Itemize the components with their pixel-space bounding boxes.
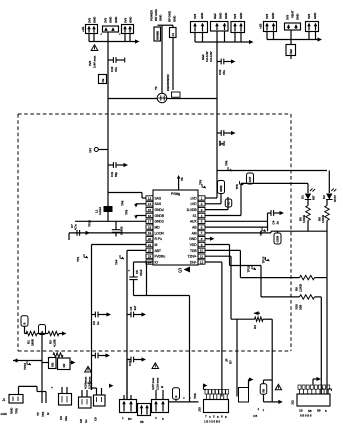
svg-text:TP1: TP1 (76, 256, 80, 262)
label charge ratings (151, 377, 164, 390)
wire group B pins to bus (195, 31, 241, 42)
wire REF to LED row 1 (217, 170, 327, 172)
label C2 (92, 321, 100, 325)
svg-text:3.3-4.6V: 3.3-4.6V (209, 51, 213, 62)
connector J4 (170, 28, 177, 38)
svg-text:GNDB: GNDB (120, 226, 124, 235)
svg-text:23: 23 (148, 254, 152, 258)
wire pin5 AUX (205, 213, 268, 231)
svg-text:INT GND: INT GND (154, 8, 158, 21)
capacitor C5 block labels (193, 12, 204, 19)
svg-text:1 B 0 5 8 B 8: 1 B 0 5 8 B 8 (204, 420, 220, 424)
label J12 row2 (300, 414, 312, 418)
capacitor C8 block (264, 22, 277, 32)
svg-text:FB2: FB2 (289, 49, 293, 55)
svg-text:DBX004W13: DBX004W13 (166, 74, 170, 91)
svg-text:3V3: 3V3 (265, 14, 269, 19)
svg-text:1u: 1u (96, 321, 100, 325)
svg-text:D1: D1 (301, 195, 305, 199)
label CA (51, 386, 68, 421)
capacitor C3 block (122, 25, 134, 34)
svg-text:15: 15 (148, 208, 152, 212)
capacitor C2 gnd (92, 312, 112, 318)
wire left drop B (126, 250, 128, 399)
wire pin3 badge (205, 197, 228, 210)
svg-text:E: E (40, 331, 44, 333)
badge GSM (274, 231, 281, 244)
label J10 (198, 407, 202, 412)
wire pin19 LOOR (69, 231, 146, 240)
warning triangle 3V3 (91, 45, 98, 51)
wire J4 stub down (172, 25, 174, 90)
wire pin10 TDB (205, 250, 300, 277)
wire pin11 TZN (205, 256, 255, 396)
connector J3 labels (81, 16, 97, 32)
svg-text:M: M (155, 243, 158, 247)
svg-text:B: B (23, 323, 27, 325)
svg-text:5B: 5B (140, 420, 144, 424)
svg-text:47uF: 47uF (139, 269, 143, 276)
svg-text:10: 10 (200, 249, 204, 253)
svg-text:TP7: TP7 (89, 147, 93, 153)
svg-text:1.2uH: 1.2uH (98, 207, 102, 215)
resistor R5 (299, 200, 311, 224)
wire E1 drop (41, 335, 43, 404)
ferrite FB2 labels (286, 10, 300, 20)
warning triangle R8 (275, 384, 281, 389)
svg-text:19: 19 (148, 231, 152, 235)
svg-text:SWB: SWB (219, 185, 223, 191)
svg-text:GND: GND (10, 407, 14, 414)
badge E1 (39, 325, 46, 335)
wire REF bus vertical (216, 31, 218, 198)
svg-text:1.5KB: 1.5KB (302, 214, 306, 223)
testpoint TP7 (89, 147, 109, 153)
wire pin8 GND arrow (205, 237, 215, 241)
label C11 56p (110, 172, 118, 177)
svg-text:GSM: GSM (276, 235, 280, 242)
svg-text:1n: 1n (276, 221, 280, 225)
svg-text:TP8: TP8 (225, 160, 229, 166)
wire group B gnd bus (195, 40, 254, 44)
svg-text:GNDd: GNDd (155, 208, 164, 212)
wire crystal row (108, 98, 217, 100)
svg-text:MD: MD (155, 225, 161, 229)
svg-text:GND: GND (129, 16, 133, 23)
capacitor C2 block labels (104, 16, 119, 23)
testpoint TP9 hook (134, 215, 146, 219)
warning triangle batt (85, 366, 92, 372)
svg-text:1.2KB: 1.2KB (299, 283, 303, 292)
wire pin6 AB (205, 226, 268, 228)
svg-text:LVD: LVD (190, 196, 197, 200)
capacitor C3 labels (124, 16, 133, 23)
svg-text:TPB: TPB (193, 392, 197, 399)
svg-text:+: + (128, 269, 130, 273)
capacitor C7 (70, 224, 80, 236)
wire pin9 VDD (205, 245, 300, 297)
svg-text:GNDd: GNDd (155, 220, 164, 224)
label batt ratings (84, 376, 92, 389)
svg-text:0 B: 0 B (219, 142, 223, 146)
svg-text:12: 12 (200, 260, 204, 264)
warning triangle charge (152, 363, 159, 369)
capacitor C11 (108, 162, 128, 168)
connector block D3b (152, 390, 169, 413)
LED D2 (322, 171, 337, 203)
wire pin1 LVD (205, 197, 217, 199)
wire gnd rail (75, 220, 146, 222)
svg-text:B: B (174, 396, 178, 398)
connector J10 aux box (239, 388, 249, 403)
wire group A pins to bus (89, 34, 130, 42)
svg-text:2.2A max: 2.2A max (156, 377, 160, 390)
wire LED columns to bottom (308, 221, 327, 278)
capacitor C1 block (86, 25, 98, 34)
svg-text:VBAT: VBAT (291, 10, 295, 18)
svg-text:J4: J4 (171, 33, 175, 37)
LED D1 (301, 183, 316, 200)
svg-text:C9: C9 (94, 417, 98, 421)
resistor R7 box (172, 92, 181, 97)
svg-text:GND: GND (224, 12, 228, 19)
label TP10 (88, 220, 92, 227)
svg-text:3V3: 3V3 (104, 18, 108, 23)
svg-text:TP6: TP6 (235, 184, 239, 190)
capacitor C3b gnd (127, 357, 146, 363)
capacitor C9 labels (307, 12, 317, 19)
wire 3V3 bus vertical (107, 32, 109, 221)
wire R8 down (264, 394, 283, 404)
wire U1 top stub Vb (177, 175, 184, 190)
svg-text:GND: GND (159, 14, 163, 21)
capacitor C12 gnd (127, 359, 131, 361)
svg-text:3V3: 3V3 (233, 14, 237, 19)
svg-text:POWER: POWER (150, 9, 154, 21)
svg-text:4.10B: 4.10B (53, 339, 57, 347)
svg-text:3V3: 3V3 (193, 14, 197, 19)
svg-text:GND: GND (296, 13, 300, 20)
wire drop B continues (126, 360, 128, 400)
dashed module boundary box (18, 114, 291, 351)
svg-text:S1: S1 (193, 214, 197, 218)
capacitor C13 (108, 57, 125, 63)
svg-text:GND: GND (109, 16, 113, 23)
svg-text:22: 22 (148, 249, 152, 253)
label TP8 right (219, 142, 232, 171)
svg-text:S: S (178, 269, 182, 275)
svg-text:TP13: TP13 (262, 256, 266, 263)
svg-text:16: 16 (148, 214, 152, 218)
capacitor C6 block labels (233, 12, 243, 19)
svg-text:GND: GND (239, 12, 243, 19)
svg-text:C17: C17 (128, 360, 132, 366)
wire J12 feeds (322, 389, 332, 391)
label J1 pins (1, 407, 19, 416)
wire R4 route (263, 319, 272, 402)
svg-text:J1: J1 (2, 398, 6, 402)
svg-text:47n: 47n (222, 70, 226, 75)
testpoint TP4 (115, 255, 125, 265)
label J12 (291, 400, 295, 405)
labels bottom center (122, 416, 164, 424)
svg-text:R.Pu: R.Pu (155, 237, 162, 241)
connector J12 (297, 377, 330, 406)
svg-text:C6: C6 (59, 416, 63, 420)
resistor R6 (318, 200, 330, 224)
svg-text:TPB: TPB (15, 407, 19, 414)
svg-text:LOOR: LOOR (155, 231, 165, 235)
svg-text:1LVDB: 1LVDB (187, 208, 198, 212)
svg-text:3V3: 3V3 (307, 14, 311, 19)
label J10 pins (205, 415, 227, 420)
svg-text:1u: 1u (84, 419, 88, 423)
svg-text:TDB: TDB (190, 249, 197, 253)
svg-text:21: 21 (148, 243, 152, 247)
wire pin24 IO (134, 261, 154, 263)
connector J1 (2, 395, 23, 404)
svg-text:TP8: TP8 (121, 200, 125, 206)
svg-text:1B: 1B (299, 409, 303, 413)
inductor L1 (95, 206, 113, 215)
wire FB2 stub (290, 56, 292, 60)
label REF voltages (201, 51, 213, 62)
connector J4 labels (168, 10, 177, 22)
capacitor C16 (217, 130, 236, 136)
svg-text:R4: R4 (253, 325, 257, 329)
ferrite FB1 block (101, 26, 122, 36)
svg-text:C8: C8 (79, 419, 83, 423)
label CC gnd (85, 381, 114, 421)
svg-text:2.4V max: 2.4V max (93, 55, 97, 68)
svg-text:18: 18 (148, 225, 152, 229)
capacitor C5 electrolytic (128, 262, 143, 296)
svg-text:R8: R8 (262, 389, 266, 393)
wire R3 gnd (59, 331, 67, 335)
wire group C pins to bus (267, 32, 316, 40)
capacitor C5 block (191, 22, 208, 33)
svg-text:TD: TD (227, 202, 231, 206)
wire LED row 2 (241, 182, 308, 184)
wire FB2 drop (290, 30, 292, 45)
wire pin7 AM (205, 231, 271, 233)
svg-text:20: 20 (148, 237, 152, 241)
capacitor C4 (268, 210, 285, 224)
testpoint TP1 (76, 254, 88, 262)
wire left drop A (91, 245, 93, 391)
label R8 area (253, 407, 265, 418)
svg-text:47n: 47n (114, 67, 118, 72)
svg-text:GND: GND (173, 15, 177, 22)
label TP3 (199, 179, 207, 188)
wire badge B1 down (25, 326, 28, 333)
svg-text:TP9: TP9 (125, 209, 129, 215)
label TP2 group (36, 411, 50, 417)
crystal Y2 (157, 93, 167, 103)
wire pin12 DN (205, 262, 222, 397)
svg-text:GND: GND (200, 12, 204, 19)
svg-text:GND: GND (219, 12, 223, 19)
badge TD (225, 199, 232, 207)
labels near J10 (193, 392, 197, 399)
svg-text:TZN/+: TZN/+ (187, 255, 196, 259)
wire center drop (189, 296, 191, 402)
svg-text:TP4: TP4 (115, 259, 119, 265)
label CB (79, 419, 88, 423)
badge B1 (21, 316, 28, 327)
svg-text:4.2V max: 4.2V max (151, 377, 155, 390)
capacitor block CB (79, 390, 92, 408)
ferrite FB2 block (285, 23, 301, 30)
ferrite FB3 box (99, 75, 107, 84)
resistor R1 (26, 331, 37, 346)
svg-text:REF: REF (213, 13, 217, 19)
svg-text:GND: GND (114, 16, 118, 23)
svg-text:SWM8: SWM8 (156, 31, 160, 40)
svg-text:10B: 10B (299, 304, 303, 310)
svg-text:ANT: ANT (248, 176, 252, 182)
svg-text:5B: 5B (308, 409, 312, 413)
resistor R2 network (42, 353, 76, 370)
switch SW1 (154, 27, 161, 41)
svg-text:FVDRu: FVDRu (155, 255, 166, 259)
wire R10 drop (320, 297, 322, 394)
capacitor C14 (217, 59, 236, 65)
wire pin2 badge (205, 194, 221, 204)
op-amp U1 transceiver IC (146, 190, 205, 265)
label C13 47n (110, 66, 118, 72)
badge R8 (260, 384, 267, 395)
svg-text:TP9: TP9 (259, 230, 263, 236)
badge ANT (247, 173, 254, 184)
svg-text:GND: GND (271, 12, 275, 19)
label TP13 left (23, 361, 31, 370)
svg-text:LVD: LVD (190, 202, 197, 206)
wire J1 riser (19, 386, 47, 403)
connector J8 labels (259, 12, 276, 29)
svg-text:D2: D2 (322, 195, 326, 199)
badge SWNS (218, 181, 225, 194)
svg-text:10u: 10u (64, 416, 68, 421)
svg-text:R?: R? (229, 360, 233, 364)
svg-text:3V3: 3V3 (286, 15, 290, 20)
svg-text:14: 14 (148, 202, 152, 206)
svg-text:GND: GND (189, 237, 197, 241)
svg-text:+1B: +1B (259, 23, 263, 29)
svg-text:IO: IO (155, 260, 159, 264)
svg-text:13: 13 (148, 196, 152, 200)
svg-text:3V3: 3V3 (124, 18, 128, 23)
capacitor block CC (92, 388, 106, 406)
wire pin4 to LED INT (205, 183, 241, 215)
label J12 pins (299, 409, 327, 414)
capacitor C6 block (231, 22, 245, 33)
svg-text:1.5KB: 1.5KB (321, 214, 325, 223)
capacitor C2b gnd (92, 353, 111, 359)
inductor L2 box (286, 45, 296, 56)
svg-text:4.7u: 4.7u (74, 224, 78, 230)
svg-text:3V3: 3V3 (88, 18, 92, 23)
svg-text:TP11: TP11 (247, 265, 251, 272)
label 3V3 2.4V max (88, 55, 97, 68)
svg-text:VDD: VDD (190, 243, 198, 247)
svg-text:56p: 56p (114, 172, 118, 177)
svg-text:Vb: Vb (180, 177, 184, 181)
wire bottom center bus (169, 396, 199, 402)
resistor R3 (48, 331, 59, 347)
wire 3V3 to pin13 (108, 193, 146, 199)
wire 3V3 gnd bus (89, 39, 140, 43)
svg-text:PGMg: PGMg (171, 192, 180, 196)
svg-text:+: + (51, 386, 53, 390)
svg-text:SAS: SAS (155, 202, 162, 206)
svg-text:R2: R2 (62, 363, 66, 367)
wire pin21 M (92, 244, 147, 246)
svg-text:GND: GND (313, 12, 317, 19)
svg-text:3V3: 3V3 (88, 61, 92, 66)
switch SW1 labels (150, 8, 163, 21)
svg-text:RF GND: RF GND (168, 10, 172, 22)
ground arrow left (13, 358, 42, 362)
label TP8 TP9 (121, 200, 129, 215)
svg-text:JP: JP (225, 358, 229, 362)
wire pin22 ABT (127, 249, 146, 251)
wire J10 hook right (249, 377, 254, 387)
label C16 47n (218, 140, 226, 146)
svg-text:GNDB: GNDB (155, 214, 165, 218)
svg-text:8B: 8B (317, 409, 321, 413)
label TP16 (259, 228, 266, 237)
svg-text:T: T (205, 415, 207, 419)
wire R9 drop (326, 278, 328, 394)
svg-text:SAS: SAS (155, 196, 162, 200)
label U1 designator (178, 267, 190, 275)
svg-text:17: 17 (148, 220, 152, 224)
svg-text:GND: GND (1, 412, 8, 416)
connector block D1b (120, 395, 137, 413)
label TP6 (235, 181, 244, 190)
label R12 (225, 358, 233, 364)
wire loop pin24 (134, 262, 190, 296)
regulator U2 labels (213, 12, 228, 19)
svg-text:TP13: TP13 (23, 363, 27, 370)
regulator U2 block (211, 22, 229, 32)
label C14 47n (218, 69, 226, 75)
svg-text:AUX: AUX (190, 220, 198, 224)
svg-text:2.2A max: 2.2A max (88, 376, 92, 389)
svg-text:ABT: ABT (155, 249, 161, 253)
label TP13 (262, 256, 270, 263)
svg-text:AM: AM (192, 231, 197, 235)
svg-text:TP2: TP2 (41, 411, 45, 417)
svg-text:Y2: Y2 (154, 86, 158, 90)
svg-text:INT: INT (312, 195, 316, 200)
capacitor block CA (59, 387, 72, 405)
svg-text:J10: J10 (198, 407, 202, 412)
testpoint TP8 hook (134, 204, 146, 208)
svg-text:180B: 180B (31, 338, 35, 346)
resistor R9 (295, 275, 328, 292)
label J10 row2 (204, 420, 220, 424)
label TP11 (247, 265, 257, 272)
connector J10 (203, 383, 229, 412)
svg-text:11: 11 (200, 254, 203, 258)
svg-text:TP10: TP10 (88, 220, 92, 227)
label C17 (128, 360, 132, 366)
svg-text:4n7: 4n7 (133, 305, 137, 310)
connector block D2b (138, 404, 151, 416)
svg-text:GND: GND (93, 16, 97, 23)
